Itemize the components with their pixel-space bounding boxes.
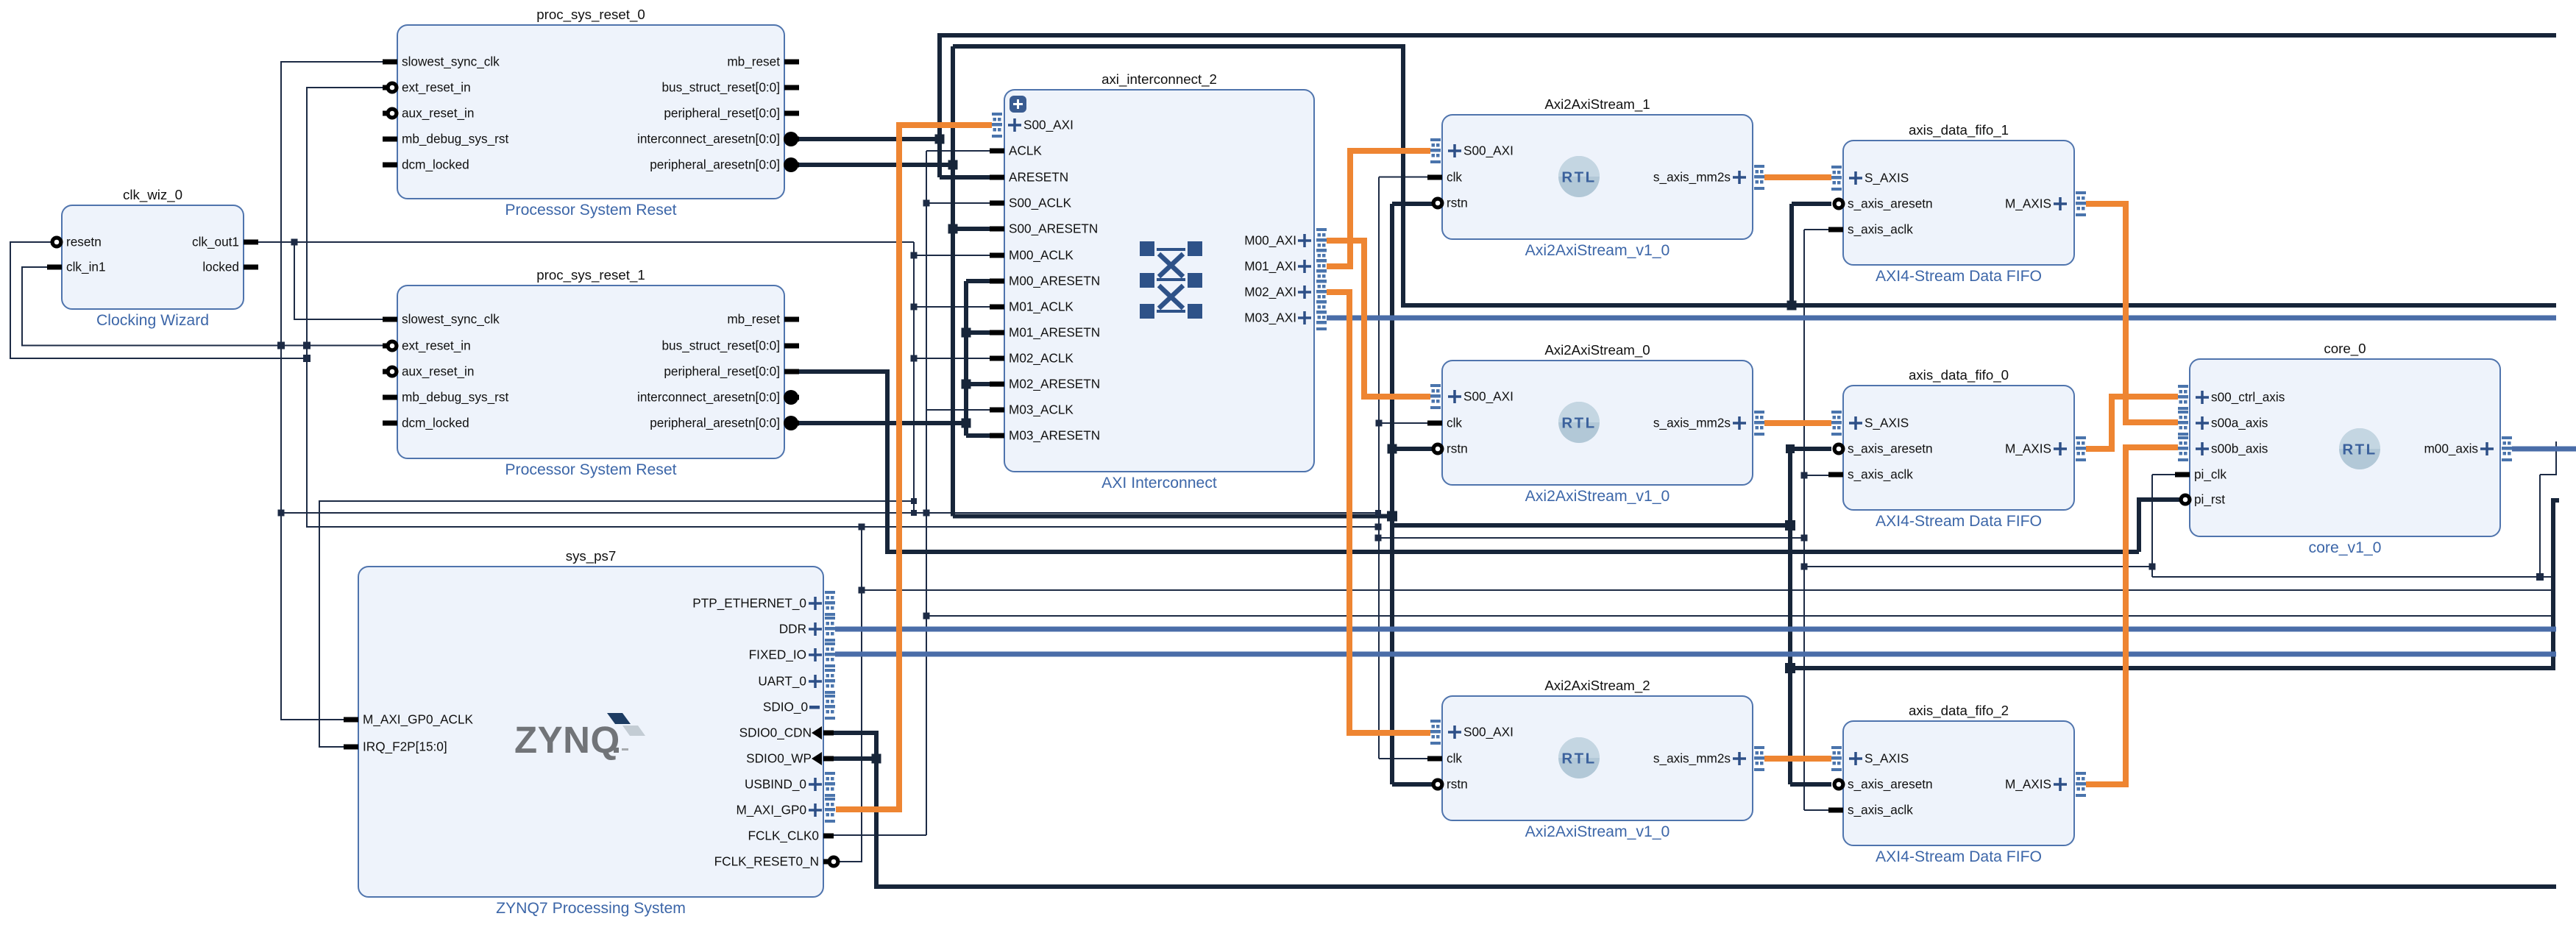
junction x417 y487 xyxy=(303,355,311,362)
wire FCLK_CLK0 out xyxy=(832,834,926,836)
proc_sys_reset_1 port ext_reset_in xyxy=(383,344,397,349)
junction aresetn_1 y415 jct xyxy=(1787,301,1797,311)
svg-text:s_axis_mm2s: s_axis_mm2s xyxy=(1653,170,1731,185)
core_0 port pi_clk xyxy=(2175,472,2190,478)
junction S00_ARESETN jct xyxy=(948,224,958,234)
proc_sys_reset_0 port mb_debug_sys_rst xyxy=(383,137,397,142)
block proc_sys_reset_1 xyxy=(397,267,784,478)
svg-text:M00_ACLK: M00_ACLK xyxy=(1009,248,1074,263)
axi_interconnect_2 port M00_ACLK xyxy=(990,253,1004,258)
svg-text:S_AXIS: S_AXIS xyxy=(1864,171,1909,185)
svg-text:FIXED_IO: FIXED_IO xyxy=(749,648,806,662)
svg-text:s_axis_aresetn: s_axis_aresetn xyxy=(1848,441,1933,456)
svg-text:SDIO0_WP: SDIO0_WP xyxy=(746,751,812,766)
svg-text:SDIO0_CDN: SDIO0_CDN xyxy=(739,726,812,740)
wire clk_out1 descent x1242 xyxy=(913,242,915,513)
proc_sys_reset_1 port aux_reset_in xyxy=(383,369,397,375)
svg-text:s00_ctrl_axis: s00_ctrl_axis xyxy=(2211,390,2285,405)
wire FCLK_RESET0_N riser x1171 xyxy=(832,527,862,862)
svg-text:Axi2AxiStream_v1_0: Axi2AxiStream_v1_0 xyxy=(1525,823,1670,840)
svg-text:clk_in1: clk_in1 xyxy=(66,260,106,274)
axi_interconnect_2 port M02_ACLK xyxy=(990,356,1004,361)
wire s_axis_aresetn vertical x2433 xyxy=(1788,449,1792,784)
wire resetn net clk_wiz (FCLK_RESET0 to resetn) xyxy=(10,242,307,358)
axi_interconnect_2 port M01_ACLK xyxy=(990,305,1004,310)
sys_ps7 interface connector strip upper xyxy=(825,591,835,616)
wire aclk vertical x2452 xyxy=(1803,230,1805,810)
svg-text:interconnect_aresetn[0:0]: interconnect_aresetn[0:0] xyxy=(637,132,780,146)
wire S00_ARESETN feed xyxy=(953,227,991,231)
svg-text:ARESETN: ARESETN xyxy=(1009,170,1068,185)
wire s_axis_aresetn_2 feed xyxy=(1790,782,1831,787)
junction x382 y470 xyxy=(277,342,285,350)
junction x1171 y716 xyxy=(859,524,865,531)
svg-text:clk: clk xyxy=(1447,751,1462,766)
svg-text:FCLK_CLK0: FCLK_CLK0 xyxy=(748,829,820,843)
junction x2452 y731 jct xyxy=(1801,535,1808,542)
core_0 port pi_rst xyxy=(2184,497,2190,503)
proc_sys_reset_0 port dcm_locked xyxy=(383,163,397,168)
svg-text:clk: clk xyxy=(1447,170,1462,185)
clk_wiz_0 port clk_out1 xyxy=(244,240,258,245)
block sys_ps7 xyxy=(358,548,823,917)
wire clk_0 feed xyxy=(1379,422,1439,424)
wire s_axis_aresetn_1 feed xyxy=(1792,202,1831,206)
svg-text:Processor System Reset: Processor System Reset xyxy=(505,461,676,478)
wire m00_axis bus xyxy=(2512,447,2576,452)
junction y837 jct xyxy=(923,613,930,620)
svg-text:clk_out1: clk_out1 xyxy=(192,235,239,249)
axis_data_fifo_0 interface port S_AXIS xyxy=(1831,411,1842,436)
Axi2AxiStream_1 port rstn xyxy=(1435,201,1442,206)
svg-text:s_axis_mm2s: s_axis_mm2s xyxy=(1653,751,1731,766)
axi_interconnect_2 port ARESETN xyxy=(990,175,1004,180)
svg-text:S00_AXI: S00_AXI xyxy=(1023,118,1074,132)
proc_sys_reset_0 port slowest_sync_clk xyxy=(383,60,397,65)
wire clk_out1 horizontal y329 xyxy=(258,241,914,243)
svg-text:aux_reset_in: aux_reset_in xyxy=(402,364,474,379)
svg-text:rstn: rstn xyxy=(1447,441,1468,456)
wire clk_in1 / ext_reset_in_1 horizontal y470 xyxy=(22,267,388,346)
svg-text:Axi2AxiStream_v1_0: Axi2AxiStream_v1_0 xyxy=(1525,242,1670,259)
proc_sys_reset_1 port slowest_sync_clk xyxy=(383,317,397,322)
wire M02_AXI to Axi2AxiStream_2 xyxy=(1327,292,1430,733)
wire aresetn run y908 right vertical x3470 xyxy=(1790,500,2559,668)
proc_sys_reset_0 port ext_reset_in xyxy=(383,85,397,91)
svg-text:m00_axis: m00_axis xyxy=(2424,441,2478,456)
junction x2452 y770 jct xyxy=(1801,564,1808,570)
sys_ps7 interface connector strip lower xyxy=(825,772,835,797)
junction peripheral_aresetn_1 jct xyxy=(962,419,971,428)
svg-text:Axi2AxiStream_0: Axi2AxiStream_0 xyxy=(1544,342,1650,358)
wire s_axis_aresetn_1 riser x2435 xyxy=(1789,204,1794,305)
wire aresetn vertical x1295 xyxy=(951,46,955,517)
wire M02_ACLK feed xyxy=(914,358,991,359)
axis_data_fifo_1 interface port S_AXIS xyxy=(1831,166,1842,191)
Axi2AxiStream_0 interface port S00_AXI xyxy=(1430,384,1441,409)
junction y802 jct xyxy=(859,587,865,594)
wire peripheral_aresetn_0 out xyxy=(791,163,953,167)
Axi2AxiStream_2 port rstn xyxy=(1435,782,1442,787)
svg-text:Clocking Wizard: Clocking Wizard xyxy=(96,312,209,329)
svg-text:Axi2AxiStream_v1_0: Axi2AxiStream_v1_0 xyxy=(1525,488,1670,505)
svg-text:M_AXIS: M_AXIS xyxy=(2005,441,2051,456)
wire M_AXIS fifo_1 to s00a_axis xyxy=(2086,204,2178,422)
clk_wiz_0 port clk_in1 xyxy=(47,265,62,270)
axi_interconnect_2 port M03_ACLK xyxy=(990,408,1004,413)
wire clk run y784 xyxy=(2152,576,2553,578)
wire M02_ARESETN feed xyxy=(966,382,991,386)
svg-text:USBIND_0: USBIND_0 xyxy=(745,777,806,792)
wire M01_ACLK feed xyxy=(914,306,991,308)
wire clock vertical x382 to M_AXI_GP0_ACLK xyxy=(281,62,391,720)
svg-text:s_axis_aresetn: s_axis_aresetn xyxy=(1848,196,1933,211)
wire clk_2 feed xyxy=(1379,758,1439,759)
proc_sys_reset_0 port peripheral_aresetn[0:0] xyxy=(784,163,799,168)
svg-text:M03_ARESETN: M03_ARESETN xyxy=(1009,428,1100,443)
block core_0 xyxy=(2190,341,2500,556)
axi_interconnect_2 port M03_ARESETN xyxy=(990,433,1004,439)
svg-text:proc_sys_reset_0: proc_sys_reset_0 xyxy=(536,7,645,23)
core_0 interface port s00_ctrl_axis xyxy=(2178,385,2188,410)
svg-text:M_AXI_GP0: M_AXI_GP0 xyxy=(736,803,806,817)
svg-text:resetn: resetn xyxy=(66,235,102,249)
svg-text:DDR: DDR xyxy=(779,622,806,636)
wire M03_ARESETN feed xyxy=(966,433,991,438)
Axi2AxiStream_0 port clk xyxy=(1427,421,1442,426)
junction x2433 y908 jct xyxy=(1785,663,1795,673)
wire M03_ACLK feed xyxy=(926,409,991,411)
proc_sys_reset_1 port mb_debug_sys_rst xyxy=(383,395,397,400)
svg-text:mb_debug_sys_rst: mb_debug_sys_rst xyxy=(402,390,508,405)
sys_ps7 port FCLK_CLK0 xyxy=(823,834,834,839)
svg-text:aux_reset_in: aux_reset_in xyxy=(402,106,474,121)
svg-text:s_axis_mm2s: s_axis_mm2s xyxy=(1653,416,1731,430)
wire ACLK feed xyxy=(926,150,991,152)
wire pi_clk vertical x2925 xyxy=(2151,475,2153,577)
svg-text:axis_data_fifo_2: axis_data_fifo_2 xyxy=(1909,703,2009,719)
clk_wiz_0 port locked xyxy=(244,265,258,270)
junction M02_ARESETN jct xyxy=(962,380,971,389)
svg-text:UART_0: UART_0 xyxy=(758,674,806,689)
wire SDIO0_WP feed xyxy=(832,756,876,761)
wire peripheral_reset_1 to pi_rst y750 xyxy=(796,372,2139,552)
wire M00_AXI to Axi2AxiStream_0 xyxy=(1327,241,1430,397)
wire ARESETN feed xyxy=(940,175,991,180)
axi_interconnect_2 port M02_ARESETN xyxy=(990,382,1004,387)
core_0 RTL icon xyxy=(2339,428,2380,469)
svg-text:ACLK: ACLK xyxy=(1009,143,1042,158)
svg-text:mb_reset: mb_reset xyxy=(727,312,780,327)
svg-text:dcm_locked: dcm_locked xyxy=(402,416,469,430)
svg-text:s_axis_aresetn: s_axis_aresetn xyxy=(1848,777,1933,792)
junction peripheral_aresetn_0 jct xyxy=(948,160,958,170)
svg-text:rstn: rstn xyxy=(1447,196,1468,210)
svg-text:bus_struct_reset[0:0]: bus_struct_reset[0:0] xyxy=(661,338,780,353)
junction rstn source jct xyxy=(1387,511,1397,522)
axi_interconnect_2 crossbar icon xyxy=(1140,241,1202,319)
svg-text:interconnect_aresetn[0:0]: interconnect_aresetn[0:0] xyxy=(637,390,780,405)
junction x417 y470 xyxy=(303,342,311,350)
wire M00_ACLK feed xyxy=(914,255,991,256)
svg-text:sys_ps7: sys_ps7 xyxy=(566,548,617,564)
junction M01_ARESETN jct xyxy=(962,328,971,338)
proc_sys_reset_1 port bus_struct_reset[0:0] xyxy=(784,344,799,349)
svg-text:peripheral_aresetn[0:0]: peripheral_aresetn[0:0] xyxy=(650,157,780,172)
axis_data_fifo_1 port s_axis_aresetn xyxy=(1836,202,1843,207)
wire s_axis_mm2s_1 to S_AXIS fifo_1 xyxy=(1764,174,1831,180)
junction x382 y697 xyxy=(278,510,285,517)
junction IRQ jct xyxy=(911,498,917,504)
wire aresetn net top y48 xyxy=(940,35,2556,177)
axi_interconnect_2 connector strip M00-M03 xyxy=(1316,228,1327,330)
wire clk run y770 xyxy=(1804,566,2152,567)
wire DDR bus y855 xyxy=(835,627,2556,632)
junction clk_out1 split xyxy=(291,239,298,246)
axi_interconnect_2 interface port S00_AXI xyxy=(992,113,1002,138)
wire clk_1 feed xyxy=(1379,177,1439,178)
wire rstn_0 feed xyxy=(1392,447,1436,451)
block Axi2AxiStream_0 xyxy=(1442,342,1753,505)
wire aresetn run y701 y714 xyxy=(953,517,1790,526)
svg-text:axis_data_fifo_1: axis_data_fifo_1 xyxy=(1909,122,2009,138)
svg-text:clk_wiz_0: clk_wiz_0 xyxy=(123,187,182,203)
wire clk run y731 xyxy=(1378,537,1804,539)
svg-text:M03_ACLK: M03_ACLK xyxy=(1009,402,1074,417)
junction x2925 y770 jct xyxy=(2149,564,2156,570)
svg-text:pi_clk: pi_clk xyxy=(2194,467,2226,482)
svg-text:proc_sys_reset_1: proc_sys_reset_1 xyxy=(536,267,645,283)
proc_sys_reset_1 port dcm_locked xyxy=(383,421,397,426)
svg-text:M00_AXI: M00_AXI xyxy=(1244,233,1296,248)
junction x2433 y714 jct xyxy=(1785,520,1795,531)
svg-text:axis_data_fifo_0: axis_data_fifo_0 xyxy=(1909,367,2009,383)
svg-text:clk: clk xyxy=(1447,416,1462,430)
proc_sys_reset_0 port peripheral_reset[0:0] xyxy=(784,111,799,116)
axis_data_fifo_2 interface port S_AXIS xyxy=(1831,746,1842,771)
svg-text:S00_ARESETN: S00_ARESETN xyxy=(1009,221,1098,236)
junction interconnect_aresetn_0 jct xyxy=(935,135,945,144)
svg-text:ZYNQ7 Processing System: ZYNQ7 Processing System xyxy=(496,900,686,917)
axi_interconnect_2 port S00_ARESETN xyxy=(990,227,1004,232)
svg-text:s_axis_aclk: s_axis_aclk xyxy=(1848,222,1913,237)
Axi2AxiStream_0 port rstn xyxy=(1435,447,1442,452)
svg-text:peripheral_reset[0:0]: peripheral_reset[0:0] xyxy=(664,106,780,121)
junction S00_ACLK jct xyxy=(923,200,930,207)
proc_sys_reset_1 port interconnect_aresetn[0:0] xyxy=(784,395,799,400)
svg-text:M_AXI_GP0_ACLK: M_AXI_GP0_ACLK xyxy=(363,712,474,727)
wire SDIO0_CDN net bottom y1205 xyxy=(832,733,2556,887)
svg-text:slowest_sync_clk: slowest_sync_clk xyxy=(402,312,500,327)
junction x1242 y697 jct xyxy=(911,510,917,516)
wire s_axis_aresetn_0 feed xyxy=(1790,447,1831,451)
svg-text:S00_AXI: S00_AXI xyxy=(1463,725,1514,739)
wire aresetn_1 vertical x1313 xyxy=(964,281,968,436)
proc_sys_reset_1 port peripheral_aresetn[0:0] xyxy=(784,421,799,426)
svg-text:slowest_sync_clk: slowest_sync_clk xyxy=(402,54,500,69)
svg-text:S_AXIS: S_AXIS xyxy=(1864,416,1909,430)
sys_ps7 ZYNQ logo xyxy=(514,713,645,761)
axi_interconnect_2 expand button xyxy=(1010,96,1026,113)
axis_data_fifo_0 port s_axis_aresetn xyxy=(1836,447,1843,452)
block clk_wiz_0 xyxy=(62,187,244,329)
Axi2AxiStream_2 interface port S00_AXI xyxy=(1430,720,1441,745)
svg-text:M02_ARESETN: M02_ARESETN xyxy=(1009,377,1100,391)
core_0 interface port s00a_axis xyxy=(2178,411,2188,436)
svg-text:axi_interconnect_2: axi_interconnect_2 xyxy=(1101,71,1217,88)
wire pi_rst feed xyxy=(2139,500,2179,552)
block axis_data_fifo_2 xyxy=(1843,703,2074,865)
block Axi2AxiStream_1 xyxy=(1442,96,1753,259)
svg-text:dcm_locked: dcm_locked xyxy=(402,157,469,172)
axi_interconnect_2 port M01_ARESETN xyxy=(990,330,1004,336)
wire rstn vertical x1892 xyxy=(1390,204,1394,784)
wire rstn_1 feed xyxy=(1392,202,1436,206)
wire aresetn net y63 / y415 xyxy=(953,46,2556,305)
junction clk y731 jct xyxy=(1375,535,1382,542)
svg-text:Processor System Reset: Processor System Reset xyxy=(505,202,676,219)
Axi2AxiStream_1 RTL icon xyxy=(1558,156,1600,197)
wire clk stub top right xyxy=(2540,441,2556,475)
block proc_sys_reset_0 xyxy=(397,7,784,219)
svg-text:mb_reset: mb_reset xyxy=(727,54,780,69)
axis_data_fifo_2 port s_axis_aclk xyxy=(1828,808,1843,813)
junction aresetn_0 jct xyxy=(1786,444,1795,453)
svg-text:rstn: rstn xyxy=(1447,777,1468,792)
axi_interconnect_2 port M00_ARESETN xyxy=(990,279,1004,284)
svg-text:ZYNQ: ZYNQ xyxy=(514,719,620,761)
svg-text:peripheral_reset[0:0]: peripheral_reset[0:0] xyxy=(664,364,780,379)
svg-text:Axi2AxiStream_1: Axi2AxiStream_1 xyxy=(1544,96,1650,113)
svg-text:peripheral_aresetn[0:0]: peripheral_aresetn[0:0] xyxy=(650,416,780,430)
wire s_axis_aclk_2 feed xyxy=(1804,809,1831,811)
wire peripheral_aresetn_1 out xyxy=(791,421,966,425)
svg-text:AXI Interconnect: AXI Interconnect xyxy=(1101,475,1217,492)
proc_sys_reset_0 port aux_reset_in xyxy=(383,111,397,116)
wire s_axis_aclk_0 feed xyxy=(1804,475,1831,476)
svg-text:IRQ_F2P[15:0]: IRQ_F2P[15:0] xyxy=(363,739,447,754)
junction SDIO0_WP jct xyxy=(872,754,881,764)
wire clk vertical x1874 xyxy=(1378,177,1380,759)
svg-text:M_AXIS: M_AXIS xyxy=(2005,196,2051,211)
svg-text:S00_AXI: S00_AXI xyxy=(1463,143,1514,158)
svg-text:M00_ARESETN: M00_ARESETN xyxy=(1009,274,1100,288)
core_0 interface port s00b_axis xyxy=(2178,436,2188,461)
wire clk vertical x3452 xyxy=(2539,475,2541,577)
svg-text:M02_ACLK: M02_ACLK xyxy=(1009,351,1074,366)
svg-text:core_v1_0: core_v1_0 xyxy=(2309,539,2382,556)
svg-text:M02_AXI: M02_AXI xyxy=(1244,285,1296,299)
svg-text:S_AXIS: S_AXIS xyxy=(1864,751,1909,766)
wire s_axis_mm2s_0 to S_AXIS fifo_0 xyxy=(1764,420,1831,426)
svg-text:RTL: RTL xyxy=(1561,169,1596,186)
svg-text:M_AXIS: M_AXIS xyxy=(2005,777,2051,792)
sys_ps7 port IRQ_F2P[15:0] xyxy=(344,745,358,750)
svg-text:M01_ARESETN: M01_ARESETN xyxy=(1009,325,1100,340)
wire reset vertical x417 and y716 run xyxy=(307,88,1378,527)
clk_wiz_0 port resetn xyxy=(53,240,62,245)
junction x1873 y716 xyxy=(1375,524,1382,531)
sys_ps7 port FCLK_RESET0_N xyxy=(823,859,829,865)
svg-text:SDIO_0: SDIO_0 xyxy=(763,700,808,714)
svg-text:s_axis_aclk: s_axis_aclk xyxy=(1848,803,1913,817)
junction M00_ACLK jct xyxy=(911,252,918,259)
wire M01_AXI to Axi2AxiStream_1 xyxy=(1327,151,1430,266)
wire interconnect_aresetn_0 out xyxy=(791,137,940,141)
block axis_data_fifo_1 xyxy=(1843,122,2074,285)
svg-text:ext_reset_in: ext_reset_in xyxy=(402,80,471,95)
junction x1873 y697 xyxy=(1375,510,1381,516)
svg-text:locked: locked xyxy=(202,260,239,274)
axis_data_fifo_2 port s_axis_aresetn xyxy=(1836,782,1843,787)
proc_sys_reset_1 port peripheral_reset[0:0] xyxy=(784,369,799,375)
junction x1259 y697 xyxy=(923,510,930,517)
junction M01_ACLK jct xyxy=(911,304,918,311)
block axis_data_fifo_0 xyxy=(1843,367,2074,530)
wire FCLK_CLK0 riser x1259 xyxy=(926,151,927,835)
wire clk_out1 to slowest_sync_clk_1 xyxy=(294,242,388,319)
svg-text:AXI4-Stream Data FIFO: AXI4-Stream Data FIFO xyxy=(1876,268,2042,285)
wire M00_ARESETN feed xyxy=(966,279,991,283)
proc_sys_reset_0 port mb_reset xyxy=(784,60,799,65)
svg-text:S00_ACLK: S00_ACLK xyxy=(1009,196,1072,210)
svg-text:Axi2AxiStream_2: Axi2AxiStream_2 xyxy=(1544,678,1650,694)
axi_interconnect_2 port S00_ACLK xyxy=(990,201,1004,206)
wire s_axis_aclk_1 feed xyxy=(1804,229,1831,230)
svg-text:M03_AXI: M03_AXI xyxy=(1244,311,1296,325)
junction aclk_0 jct xyxy=(1801,472,1808,479)
wire long thin run y837 xyxy=(926,615,2553,617)
svg-text:S00_AXI: S00_AXI xyxy=(1463,389,1514,404)
wire FIXED_IO bus y889 xyxy=(835,652,2556,657)
wire clock link y697 xyxy=(281,512,1378,514)
sys_ps7 port M_AXI_GP0_ACLK xyxy=(344,717,358,723)
block Axi2AxiStream_2 xyxy=(1442,678,1753,840)
Axi2AxiStream_0 RTL icon xyxy=(1558,402,1600,443)
svg-text:s_axis_aclk: s_axis_aclk xyxy=(1848,467,1913,482)
wire S00_ACLK feed xyxy=(926,202,991,204)
axis_data_fifo_0 port s_axis_aclk xyxy=(1828,472,1843,478)
axis_data_fifo_1 port s_axis_aclk xyxy=(1828,227,1843,233)
svg-text:pi_rst: pi_rst xyxy=(2194,492,2225,507)
wire M03_AXI bus y432 xyxy=(1327,316,2556,321)
wire M_AXIS fifo_2 to s00b_axis xyxy=(2086,447,2178,784)
wire long thin run y802 xyxy=(862,589,2553,591)
axi_interconnect_2 port ACLK xyxy=(990,149,1004,154)
svg-text:M01_AXI: M01_AXI xyxy=(1244,259,1296,274)
proc_sys_reset_0 port bus_struct_reset[0:0] xyxy=(784,85,799,91)
svg-text:FCLK_RESET0_N: FCLK_RESET0_N xyxy=(714,854,819,869)
junction rstn_0 jct xyxy=(1388,444,1397,454)
svg-text:ext_reset_in: ext_reset_in xyxy=(402,338,471,353)
svg-text:mb_debug_sys_rst: mb_debug_sys_rst xyxy=(402,132,508,146)
junction M02_ACLK jct xyxy=(911,355,918,362)
svg-text:M01_ACLK: M01_ACLK xyxy=(1009,299,1074,314)
Axi2AxiStream_2 RTL icon xyxy=(1558,737,1600,778)
svg-text:PTP_ETHERNET_0: PTP_ETHERNET_0 xyxy=(692,596,806,611)
wire M_AXI_GP0 to S00_AXI interconnect xyxy=(836,125,992,809)
svg-text:RTL: RTL xyxy=(1561,751,1596,767)
proc_sys_reset_0 port interconnect_aresetn[0:0] xyxy=(784,137,799,142)
wire IRQ_F2P net y681 xyxy=(319,501,914,747)
proc_sys_reset_1 port mb_reset xyxy=(784,317,799,322)
wire pi_clk feed xyxy=(2152,474,2179,475)
junction pi_clk right jct xyxy=(2536,573,2544,581)
Axi2AxiStream_1 interface port S00_AXI xyxy=(1430,138,1441,163)
wire M_AXIS fifo_0 to s00_ctrl_axis xyxy=(2086,397,2178,449)
svg-text:AXI4-Stream Data FIFO: AXI4-Stream Data FIFO xyxy=(1876,848,2042,865)
block axi_interconnect_2 xyxy=(1004,71,1314,492)
